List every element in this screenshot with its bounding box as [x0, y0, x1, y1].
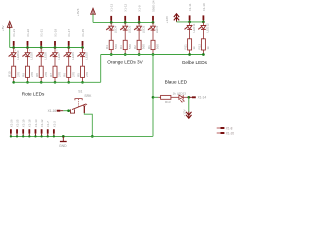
svg-text:R9: R9 [21, 73, 25, 77]
svg-text:SRK: SRK [84, 94, 92, 98]
wire [40, 77, 42, 82]
LED LED8 [40, 48, 42, 53]
svg-text:R7: R7 [49, 73, 53, 77]
svg-text:+5V: +5V [1, 24, 5, 31]
wire [110, 30, 112, 40]
junction [188, 53, 191, 56]
svg-text:X1-13: X1-13 [110, 3, 114, 11]
wire [138, 30, 140, 40]
LED LED13 [179, 95, 185, 102]
junction [26, 46, 29, 49]
wire riser down [152, 55, 154, 137]
wire down to +12V [188, 97, 190, 111]
svg-text:Rote LEDs: Rote LEDs [22, 92, 45, 97]
svg-text:R12: R12 [197, 44, 201, 50]
LED LED10 [13, 48, 15, 53]
svg-text:1k: 1k [192, 46, 196, 50]
junction [202, 21, 205, 24]
+5V supply symbol [1, 21, 12, 31]
svg-text:X1-26: X1-26 [9, 119, 13, 127]
wire +3V3 down [92, 14, 94, 22]
svg-text:GND: GND [59, 144, 67, 148]
svg-text:LED3: LED3 [127, 25, 131, 33]
svg-text:X1-19: X1-19 [54, 29, 58, 37]
resistor R9 270 [26, 66, 30, 77]
wire [183, 96, 188, 98]
junction node R13 tap [152, 96, 155, 99]
svg-text:X1-20: X1-20 [226, 131, 235, 135]
junction [187, 96, 190, 99]
junction [54, 81, 57, 84]
svg-text:R13: R13 [165, 100, 171, 104]
svg-text:LED8: LED8 [43, 52, 47, 60]
svg-text:Blaue LED: Blaue LED [165, 79, 188, 84]
svg-text:X1-23: X1-23 [12, 29, 16, 37]
junction [188, 21, 191, 24]
resistor R5 270 [81, 66, 85, 77]
LED LED1 [152, 22, 154, 26]
svg-text:R3: R3 [119, 45, 123, 49]
svg-text:Orange LEDs 3V: Orange LEDs 3V [107, 60, 143, 65]
wire red LEDs return bus [14, 81, 101, 83]
junction [67, 109, 70, 112]
svg-text:270: 270 [16, 72, 20, 77]
wire [202, 50, 204, 55]
svg-text:270: 270 [30, 72, 34, 77]
resistor R12 1k [201, 39, 205, 50]
svg-text:X1-9: X1-9 [138, 5, 142, 12]
svg-text:270: 270 [44, 72, 48, 77]
resistor R11 1k [188, 39, 192, 50]
svg-text:X1-13: X1-13 [34, 119, 38, 127]
junction [81, 81, 84, 84]
svg-text:LED9: LED9 [30, 52, 34, 60]
wire [40, 57, 42, 66]
svg-text:R10: R10 [8, 71, 12, 77]
junction [12, 81, 15, 84]
svg-text:LED2: LED2 [141, 25, 145, 33]
junction [12, 46, 15, 49]
+3V3 supply symbol [76, 8, 95, 16]
svg-text:LED6: LED6 [71, 52, 75, 60]
resistor R1 560 [151, 40, 155, 49]
svg-text:+3V3: +3V3 [76, 8, 80, 16]
svg-text:R11: R11 [184, 44, 188, 50]
svg-text:270: 270 [85, 72, 89, 77]
resistor R4 560 [109, 40, 113, 49]
LED LED3 [124, 22, 126, 26]
wire [189, 50, 191, 55]
svg-text:X1-7: X1-7 [46, 121, 50, 127]
svg-text:Gelbe LEDs: Gelbe LEDs [182, 60, 208, 65]
wire 12V bus [177, 21, 204, 23]
LED LED9 [27, 48, 29, 53]
junction [91, 135, 94, 138]
LED LED4 [110, 22, 112, 26]
wire [124, 50, 126, 55]
pin X1-8 [217, 127, 221, 129]
svg-text:R8: R8 [35, 73, 39, 77]
junction [152, 53, 155, 56]
svg-text:1k: 1k [206, 46, 210, 50]
svg-text:X1-10: X1-10 [202, 3, 206, 11]
wire [189, 30, 191, 39]
svg-text:R2: R2 [133, 45, 137, 49]
junction [81, 46, 84, 49]
wire [27, 57, 29, 66]
svg-text:LED1: LED1 [155, 25, 159, 33]
wire [54, 77, 56, 82]
junction [40, 81, 43, 84]
svg-text:X1-15: X1-15 [81, 29, 85, 37]
wire [54, 57, 56, 66]
+12V supply symbol [165, 14, 179, 23]
wire return bus mid [101, 54, 204, 56]
svg-text:S1: S1 [78, 89, 82, 93]
resistor R7 270 [53, 66, 57, 77]
wire [82, 77, 84, 82]
wire ground bus [10, 135, 153, 137]
junction [124, 53, 127, 56]
junction [26, 81, 29, 84]
wire [202, 30, 204, 39]
svg-text:X1-12: X1-12 [124, 3, 128, 11]
wire switch to gnd bus [84, 113, 92, 136]
LED LED5 [82, 48, 84, 53]
svg-text:X1-17: X1-17 [67, 29, 71, 37]
LED LED11 [189, 22, 191, 26]
svg-text:X1-22: X1-22 [26, 29, 30, 37]
svg-text:R4: R4 [105, 45, 109, 49]
switch S1 SRK [70, 99, 87, 114]
junction [54, 46, 57, 49]
svg-text:X1-8: X1-8 [226, 126, 233, 130]
svg-text:LED4: LED4 [113, 25, 117, 33]
svg-text:X1-14: X1-14 [198, 96, 207, 100]
wire [13, 77, 15, 82]
svg-text:R5: R5 [76, 73, 80, 77]
junction [202, 53, 205, 56]
wire to R13 [153, 96, 158, 98]
resistor R6 270 [67, 66, 71, 77]
junction [67, 46, 70, 49]
ground GND [59, 135, 67, 148]
svg-text:LED10: LED10 [16, 50, 20, 60]
wire [124, 30, 126, 40]
junction [138, 53, 141, 56]
resistor R10 270 [12, 66, 16, 77]
svg-text:X1-18: X1-18 [28, 119, 32, 127]
svg-text:270: 270 [71, 72, 75, 77]
svg-text:LED11: LED11 [192, 23, 196, 32]
junction [124, 21, 127, 24]
wire +5V bus [10, 47, 83, 49]
junction [67, 81, 70, 84]
svg-text:LED5: LED5 [85, 52, 89, 60]
wire [63, 110, 70, 112]
wire 3V bus [93, 21, 153, 23]
svg-text:X1-12: X1-12 [40, 119, 44, 127]
wire riser to 3V bus [100, 55, 102, 83]
svg-text:556E-24: 556E-24 [152, 0, 156, 12]
wire [27, 77, 29, 82]
svg-text:LED7: LED7 [57, 52, 61, 60]
wire [82, 57, 84, 66]
svg-text:X1-25: X1-25 [15, 119, 19, 127]
wire [68, 77, 70, 82]
wire [68, 57, 70, 66]
svg-text:270: 270 [58, 72, 62, 77]
svg-text:1k: 1k [173, 91, 177, 95]
junction [152, 21, 155, 24]
svg-text:X1-19: X1-19 [22, 119, 26, 127]
resistor R2 560 [137, 40, 141, 49]
svg-text:+12V: +12V [165, 15, 169, 23]
svg-text:X1-2: X1-2 [52, 121, 56, 127]
wire +5V down [9, 29, 11, 48]
LED LED7 [54, 48, 56, 53]
svg-text:X1-21: X1-21 [40, 29, 44, 37]
svg-text:560: 560 [114, 44, 118, 49]
+12V arrow down [182, 108, 191, 118]
svg-text:560: 560 [128, 44, 132, 49]
wire [152, 30, 154, 40]
svg-text:X1-11: X1-11 [188, 3, 192, 11]
junction [110, 53, 113, 56]
LED LED6 [68, 48, 70, 53]
wire [110, 50, 112, 55]
svg-text:LED12: LED12 [206, 23, 210, 33]
junction [40, 46, 43, 49]
junction [138, 21, 141, 24]
junction [110, 21, 113, 24]
wire [152, 50, 154, 55]
wire [138, 50, 140, 55]
resistor R3 560 [123, 40, 127, 49]
pin X1-20 [217, 132, 221, 134]
resistor R13 1k [161, 95, 171, 99]
resistor R8 270 [39, 66, 43, 77]
LED LED2 [138, 22, 140, 26]
wire [171, 96, 179, 98]
svg-text:LED13: LED13 [177, 91, 187, 95]
LED LED12 [202, 22, 204, 26]
wire [13, 57, 15, 66]
svg-text:R1: R1 [147, 45, 151, 49]
pin X1-14 [189, 96, 192, 98]
svg-text:560: 560 [156, 44, 160, 49]
svg-text:X1-16: X1-16 [48, 109, 57, 113]
svg-text:R6: R6 [63, 73, 67, 77]
svg-text:560: 560 [142, 44, 146, 49]
